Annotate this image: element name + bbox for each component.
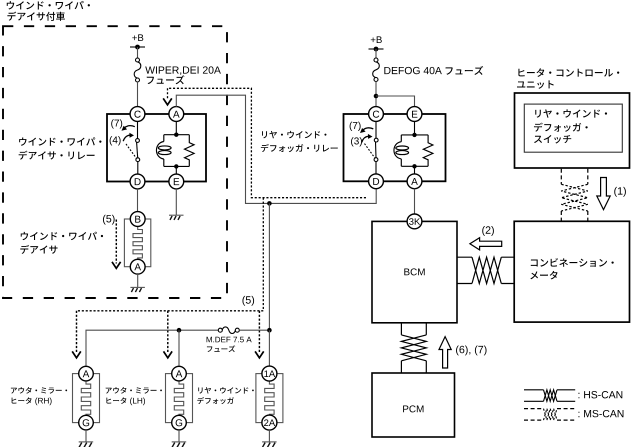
label: rear window defogger relay line1 — [262, 131, 326, 138]
relay switch contact (right relay) — [365, 121, 379, 174]
wire: M.DEF 7.5A fuse feed line — [86, 330, 218, 366]
wire +B to fuse WIPER.DEI — [137, 47, 139, 58]
connector 3K on BCM — [407, 214, 422, 229]
curved arrow for (7) right relay — [362, 128, 373, 131]
junction node on wire — [267, 201, 272, 206]
terminal E (left relay) — [169, 174, 184, 189]
label: rear window defogger relay line2 — [261, 144, 338, 152]
current flow arrow (5) through deicer — [115, 220, 117, 264]
label (7) left relay — [111, 119, 122, 128]
terminal D (right relay) — [369, 174, 384, 189]
label (4) left relay — [110, 136, 121, 145]
module: combination meter — [514, 221, 629, 322]
flow path (5): right relay D to left relay A, dotted — [168, 88, 367, 197]
wire rear window defogger to ground — [268, 430, 270, 442]
label: window wiper deicer relay line2 — [19, 151, 95, 160]
ground (rear window defogger) — [262, 442, 277, 447]
connector B (wiper deicer) — [130, 212, 145, 227]
flow path into A (left relay): dotted — [167, 88, 169, 98]
module PCM — [372, 373, 455, 437]
outer mirror heater LH box — [166, 374, 193, 423]
label: outer mirror heater RH line1 — [11, 387, 67, 394]
label (5) at distribution — [242, 296, 254, 306]
window wiper deicer element box — [124, 219, 150, 267]
label: with window wiper deicer - line2 — [7, 12, 65, 21]
node +B tick and dot (right) — [369, 48, 384, 50]
legend text MS-CAN — [578, 410, 623, 417]
label rh line2 jp — [12, 397, 32, 404]
wire right relay A to BCM connector 3K — [414, 189, 416, 214]
terminal A (left relay) — [169, 107, 184, 122]
rear window defogger element — [265, 381, 274, 416]
terminal D (left relay) — [130, 174, 145, 189]
wire tee to E (right relay) — [376, 96, 415, 107]
wire coil to E (left relay) — [175, 166, 177, 174]
label lh line2 jp — [106, 397, 126, 404]
label: rear window defogger line2 — [197, 397, 234, 404]
relay switch contact (left relay) — [126, 121, 140, 174]
label: outer mirror heater LH line1 — [106, 387, 162, 394]
wire: fuse to junction — [239, 329, 269, 331]
wire: left relay A to right relay D — [176, 95, 376, 203]
label: fuse (katakana) M.DEF — [207, 345, 235, 352]
label (5) at deicer — [103, 215, 115, 225]
rear window defogger box — [256, 374, 283, 423]
wire: tee down to mirror heater LH — [178, 330, 180, 366]
power node +B (right) — [371, 36, 382, 43]
label: combination meter line1 — [531, 258, 614, 267]
dashed enclosure: wiper-deicer-equipped vehicles — [3, 26, 227, 298]
rear window defogger top connector — [262, 366, 277, 381]
ground (outer mirror heater LH) — [172, 442, 187, 447]
curved arrow for (3) right relay — [362, 136, 370, 142]
label: fuse (katakana) — [147, 75, 185, 84]
relay: window wiper deicer relay box — [107, 114, 206, 182]
outer mirror heater LH bottom connector — [172, 415, 187, 430]
ground (wiper deicer) — [130, 287, 145, 292]
flow arrow into mirror heater RH — [76, 311, 78, 353]
label (6),(7) — [456, 346, 486, 356]
HS-CAN bus: BCM to PCM — [401, 323, 426, 373]
relay: rear window defogger relay box — [344, 114, 446, 181]
label: window wiper deicer relay line1 — [19, 137, 101, 145]
wire E to ground (left relay) — [175, 189, 177, 215]
label: rw defogger switch line2 — [534, 123, 588, 132]
label: heater control unit line1 — [518, 68, 619, 77]
ground (outer mirror heater RH) — [79, 442, 94, 447]
fuse DEFOG 40A — [373, 58, 380, 82]
ground (left relay E) — [169, 215, 184, 220]
label: rear window defogger line1 — [198, 387, 254, 393]
wire +B to DEFOG fuse — [375, 49, 377, 58]
wire D to connector B — [137, 189, 139, 212]
label (2) — [482, 226, 494, 236]
legend HS-CAN — [524, 390, 575, 402]
label: with window wiper deicer - line1 — [7, 1, 90, 10]
label lh line2 latin — [130, 398, 145, 406]
label BCM — [404, 268, 424, 275]
label: fuse katakana DEFOG — [446, 66, 484, 75]
label: rw defogger switch line1 — [535, 109, 607, 117]
wire: junction down to rear defogger 1A — [268, 330, 270, 366]
legend MS-CAN — [524, 409, 575, 421]
fuse WIPER.DEI 20A — [134, 58, 141, 82]
wire DEFOG fuse to junction — [375, 82, 377, 107]
terminal C (left relay) — [130, 107, 145, 122]
outer mirror heater RH element — [81, 381, 90, 416]
terminal C (right relay) — [369, 107, 384, 122]
MS-CAN bus: heater control unit to combination meter — [561, 169, 588, 222]
node: tee to mirror heater LH — [177, 328, 182, 333]
wire fuse to relay terminal C — [137, 82, 139, 107]
module: heater control unit — [515, 93, 630, 168]
connector A (wiper deicer) — [130, 259, 145, 274]
flow arrow (1): hollow down arrow — [597, 178, 610, 210]
flow arrow (2): hollow left arrow — [470, 238, 502, 250]
label rh line2 latin — [35, 398, 51, 406]
label: M.DEF 7.5A fuse — [207, 337, 252, 343]
label: DEFOG 40A fuse — [384, 67, 441, 74]
label: combination meter line2 — [530, 271, 557, 280]
flow arrow into mirror heater LH — [167, 311, 169, 353]
label (1) — [614, 187, 626, 197]
flow path (5): down to heater elements, dotted — [77, 198, 264, 311]
wire deicer A to ground — [137, 274, 139, 287]
wire coil to A (right relay) — [414, 166, 416, 174]
label (7) right relay — [350, 122, 361, 131]
curved arrow for (7) left relay — [124, 126, 135, 129]
power node +B (left) — [132, 34, 143, 41]
wire outer mirror heater RH to ground — [85, 430, 87, 442]
relay coil and resistor (right relay) — [394, 135, 433, 166]
node: fuse output tee — [374, 94, 379, 99]
fuse M.DEF 7.5A — [218, 327, 239, 334]
label: window wiper deicer line2 — [20, 245, 57, 254]
label: WIPER.DEI 20A fuse — [145, 66, 221, 75]
outer mirror heater RH box — [73, 374, 100, 423]
terminal A (right relay) — [407, 174, 422, 189]
rear window defogger switch box — [524, 104, 622, 152]
label: rw defogger switch line3 — [534, 135, 571, 144]
terminal E (right relay) — [407, 107, 422, 122]
rear window defogger bottom connector — [262, 415, 277, 430]
node +B tick and dot (left) — [130, 46, 145, 48]
label (3) right relay — [351, 137, 362, 146]
module BCM — [372, 221, 457, 322]
label PCM — [403, 405, 423, 412]
outer mirror heater LH top connector — [172, 366, 187, 381]
wire: junction down to M.DEF line — [268, 203, 270, 330]
legend text HS-CAN — [578, 391, 622, 398]
HS-CAN bus: BCM to combination meter — [457, 257, 514, 283]
wire A to coil (left relay) — [175, 121, 177, 134]
label: heater control unit line2 — [517, 80, 554, 88]
outer mirror heater RH bottom connector — [79, 415, 94, 430]
curved arrow for (4) left relay — [123, 135, 131, 141]
wire outer mirror heater LH to ground — [178, 430, 180, 442]
flow arrow into rear defogger — [258, 311, 260, 353]
outer mirror heater RH top connector — [79, 366, 94, 381]
label: window wiper deicer line1 — [21, 232, 103, 240]
relay coil and resistor (left relay) — [156, 135, 194, 167]
flow arrow (6),(7): hollow up arrow — [439, 337, 451, 368]
window wiper deicer heating element — [133, 226, 142, 259]
wire E to coil (right relay) — [414, 121, 416, 135]
outer mirror heater LH element — [174, 381, 183, 416]
